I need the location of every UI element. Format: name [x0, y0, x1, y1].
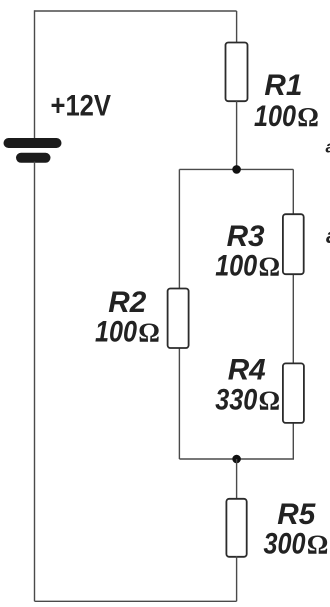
svg-text:R2: R2	[108, 286, 146, 319]
wire R1 bottom lead to node A	[236, 101, 238, 169]
resistor R2	[168, 289, 189, 349]
svg-text:R5: R5	[277, 498, 316, 531]
svg-text:Ω: Ω	[259, 386, 281, 416]
wire bottom rail	[35, 600, 237, 602]
wire R5 bottom lead	[236, 556, 238, 601]
svg-text:+12V: +12V	[51, 90, 112, 123]
svg-text:R3: R3	[227, 220, 265, 253]
svg-text:a: a	[326, 138, 330, 157]
wire parallel-section bottom rail	[179, 458, 294, 460]
svg-text:330: 330	[215, 384, 257, 417]
node A junction dot	[232, 165, 241, 174]
svg-text:300: 300	[264, 528, 306, 561]
svg-text:R4: R4	[228, 354, 266, 387]
battery +12V top plate	[4, 138, 62, 148]
wire parallel-section top rail	[179, 168, 293, 170]
svg-text:Ω: Ω	[259, 252, 281, 282]
wire R5 top lead from node B	[236, 459, 238, 500]
wire R1 top lead	[236, 11, 238, 44]
svg-text:100: 100	[95, 316, 137, 349]
battery +12V bottom plate	[16, 153, 51, 163]
svg-text:R1: R1	[264, 69, 302, 102]
wire top rail from battery to R1	[35, 10, 237, 12]
wire right branch (through R3 and R4)	[292, 169, 294, 459]
svg-text:a: a	[326, 225, 330, 248]
svg-text:Ω: Ω	[297, 102, 319, 132]
svg-text:Ω: Ω	[307, 530, 329, 560]
wire left lower (battery negative lead)	[34, 162, 36, 602]
svg-text:Ω: Ω	[138, 318, 160, 348]
node B junction dot	[232, 455, 241, 464]
resistor R1	[226, 43, 248, 102]
resistor R5	[226, 499, 246, 557]
wire left branch (through R2)	[178, 169, 180, 459]
svg-text:100: 100	[254, 100, 296, 133]
resistor R3	[283, 214, 304, 274]
resistor R4	[283, 363, 304, 423]
svg-text:100: 100	[215, 250, 257, 283]
wire left upper (battery positive lead)	[34, 10, 36, 138]
